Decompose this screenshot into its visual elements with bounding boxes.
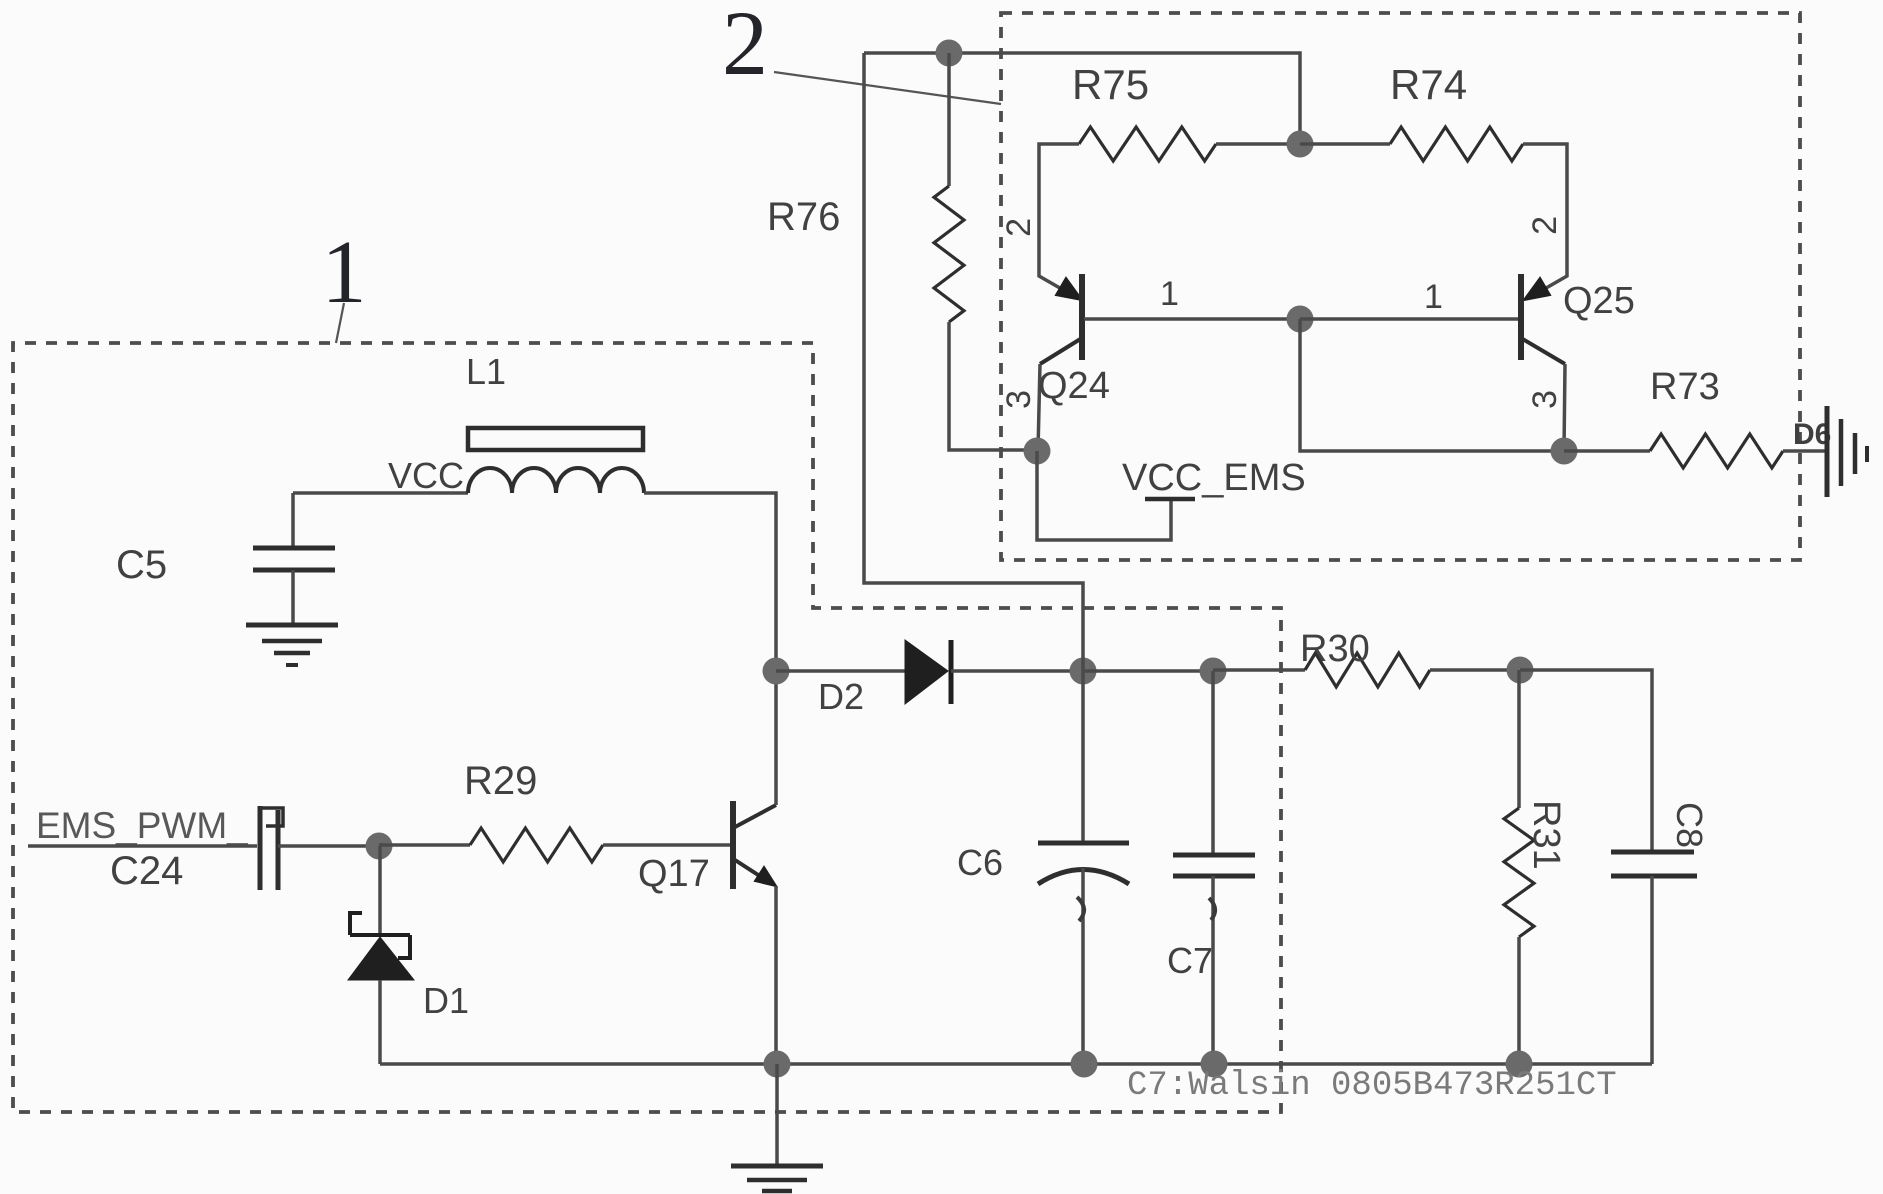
svg-text:Q24: Q24 xyxy=(1038,365,1110,407)
wire Q17 emitter down xyxy=(774,886,778,1064)
svg-text:2: 2 xyxy=(1526,216,1564,235)
wire top rail xyxy=(864,53,1300,144)
wire C6 node to C7 node xyxy=(1083,669,1213,673)
node Q25 emitter junction xyxy=(1551,438,1578,465)
wire D1 top lead xyxy=(378,846,382,935)
wire R74 right lead to Q25 collector xyxy=(1523,144,1567,295)
leader line for label 1 xyxy=(336,303,344,343)
svg-text:R73: R73 xyxy=(1650,366,1720,408)
wire R76 bottom lead xyxy=(949,322,1037,450)
wire center node down to emitter rail xyxy=(1300,319,1564,451)
svg-text:VCC: VCC xyxy=(388,455,464,496)
wire to main ground xyxy=(775,1064,779,1166)
C6 lower curl mark xyxy=(1077,897,1084,921)
svg-text:C5: C5 xyxy=(116,543,167,587)
dashed boundary box 1 xyxy=(13,343,1281,1112)
wire L1 to collector node xyxy=(644,493,776,671)
svg-text:C7:Walsin 0805B473R251CT: C7:Walsin 0805B473R251CT xyxy=(1127,1067,1617,1105)
wire D1 bottom lead xyxy=(378,980,382,1064)
wire C7 top lead xyxy=(1211,671,1215,855)
wire R29 to Q17 base xyxy=(603,843,731,847)
VCC_EMS rail bar xyxy=(1145,497,1195,502)
wire Q25 emitter down xyxy=(1564,364,1565,451)
wire C7 node to R30 xyxy=(1213,668,1305,672)
node Q24 emitter junction xyxy=(1024,438,1051,465)
transistor Q25 xyxy=(1521,274,1565,364)
node R31 bottom xyxy=(1506,1051,1533,1078)
svg-text:R31: R31 xyxy=(1525,800,1567,870)
wire C7 bottom lead xyxy=(1211,876,1215,1064)
capacitor C8 xyxy=(1611,852,1697,876)
svg-text:2: 2 xyxy=(722,0,768,94)
resistor R74 xyxy=(1390,127,1523,161)
Q17 emitter arrow xyxy=(755,867,776,886)
svg-text:C6: C6 xyxy=(957,842,1003,883)
wire C24 to node xyxy=(278,844,379,848)
wire C6 top lead xyxy=(1081,671,1085,843)
wire R73 to ground xyxy=(1783,449,1827,453)
resistor R76 xyxy=(934,186,964,322)
capacitor C5 xyxy=(253,548,335,570)
svg-text:2: 2 xyxy=(1000,218,1038,237)
svg-text:D1: D1 xyxy=(423,980,469,1021)
svg-text:VCC_EMS: VCC_EMS xyxy=(1122,457,1306,499)
leader line for label 2 xyxy=(774,72,1001,104)
inductor L1 core bar xyxy=(468,428,643,450)
wire node to R29 xyxy=(379,843,470,847)
wire C5 top lead xyxy=(291,493,295,548)
resistor R29 xyxy=(470,828,603,862)
ground below C5 xyxy=(246,625,338,665)
node C6 top xyxy=(1070,658,1097,685)
capacitor C24 xyxy=(260,806,283,890)
wire Q17 collector up xyxy=(774,671,778,805)
svg-text:EMS_PWM_: EMS_PWM_ xyxy=(36,805,248,846)
node top R76 xyxy=(936,40,963,67)
node C7 top xyxy=(1200,658,1227,685)
zener diode D1 xyxy=(350,913,410,958)
svg-text:C8: C8 xyxy=(1669,802,1710,848)
node C24/R29/D1 junction xyxy=(366,833,393,860)
ground below Q17 xyxy=(731,1166,823,1191)
C7 lower curl mark xyxy=(1209,898,1215,920)
svg-text:R75: R75 xyxy=(1072,61,1149,108)
svg-text:1: 1 xyxy=(1160,275,1179,313)
resistor R30 xyxy=(1305,653,1430,687)
wire R31 top lead xyxy=(1517,670,1521,808)
node bottom rail Q17 xyxy=(764,1051,791,1078)
wire center node to Q25 base xyxy=(1300,317,1519,321)
svg-text:D2: D2 xyxy=(818,676,864,717)
wire R31 node to C8 branch xyxy=(1520,670,1652,852)
wire to R73 xyxy=(1564,449,1650,453)
svg-text:C24: C24 xyxy=(110,849,183,893)
node base row center xyxy=(1287,306,1314,333)
wire C6 bottom lead xyxy=(1081,868,1085,1064)
wire R75 left lead to Q24 collector xyxy=(1039,144,1079,295)
svg-text:3: 3 xyxy=(1000,390,1038,409)
capacitor C6 (polarized) xyxy=(1038,843,1129,884)
resistor R75 xyxy=(1079,127,1216,161)
wire R75 right lead xyxy=(1216,142,1300,146)
wire R76 top lead xyxy=(947,53,951,186)
wire R30 to R31 node xyxy=(1430,668,1520,672)
dashed boundary box 2 xyxy=(1001,13,1800,560)
wire Q24 base to center node xyxy=(1084,317,1300,321)
node R75/R74 junction xyxy=(1287,131,1314,158)
svg-text:1: 1 xyxy=(1424,278,1443,316)
svg-text:Q25: Q25 xyxy=(1563,280,1635,322)
wire VCC rail to L1 xyxy=(293,491,468,495)
wire R74 left lead xyxy=(1300,142,1390,146)
wire C8 bottom lead xyxy=(1650,876,1654,1064)
wire C5 bottom lead xyxy=(291,570,295,625)
svg-text:Q17: Q17 xyxy=(638,853,710,895)
wire VCC_EMS tap xyxy=(1037,451,1171,540)
svg-text:R74: R74 xyxy=(1390,61,1467,108)
Q24 collector arrow xyxy=(1056,278,1082,300)
svg-text:L1: L1 xyxy=(466,351,506,392)
ground right (rotated) xyxy=(1827,406,1867,497)
node C7 bottom xyxy=(1201,1051,1228,1078)
wire Q24 emitter down xyxy=(1038,364,1040,451)
svg-text:R29: R29 xyxy=(464,759,537,803)
node L1/Q17/D2 junction xyxy=(763,658,790,685)
capacitor C7 xyxy=(1173,855,1255,876)
wire left riser from top node down to D2 output xyxy=(864,53,1083,671)
inductor L1 coils xyxy=(468,468,644,493)
Q25 collector arrow xyxy=(1524,278,1550,300)
node C6 bottom xyxy=(1071,1051,1098,1078)
resistor R31 xyxy=(1504,808,1534,937)
transistor Q17 xyxy=(733,801,776,889)
wire node to D2 xyxy=(776,669,905,673)
svg-text:R76: R76 xyxy=(767,195,840,239)
transistor Q24 xyxy=(1040,274,1082,364)
wire EMS_PWM input xyxy=(28,844,257,848)
resistor R73 xyxy=(1650,434,1783,468)
wire bottom rail xyxy=(380,1062,1652,1066)
node R31 top xyxy=(1507,657,1534,684)
svg-text:3: 3 xyxy=(1526,390,1564,409)
wire D2 to C6 node xyxy=(951,669,1083,673)
wire R31 bottom lead xyxy=(1517,937,1521,1064)
svg-text:C7: C7 xyxy=(1167,940,1213,981)
diode D2 xyxy=(905,640,948,704)
svg-text:R30: R30 xyxy=(1300,628,1370,670)
